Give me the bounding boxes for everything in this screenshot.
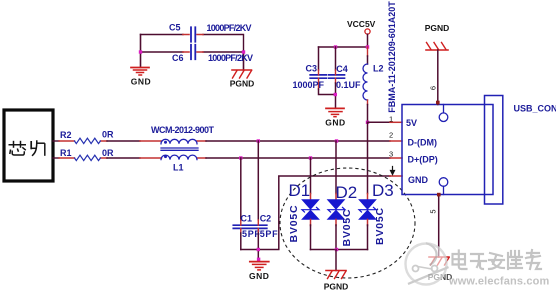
svg-text:R1: R1 bbox=[60, 148, 72, 158]
wire pin1 stub bbox=[368, 121, 391, 123]
svg-text:1000PF/2KV: 1000PF/2KV bbox=[207, 23, 252, 33]
node junction C6 left bbox=[139, 50, 142, 53]
svg-text:L2: L2 bbox=[373, 64, 384, 74]
svg-text:C1: C1 bbox=[241, 214, 253, 224]
svg-text:PGND: PGND bbox=[230, 79, 255, 89]
wire C5/C6 left vertical bbox=[140, 35, 142, 68]
capacitor C3 bbox=[293, 47, 336, 95]
diode D3 BV05C bbox=[359, 181, 394, 250]
resistor R1 bbox=[53, 148, 114, 161]
node L2 top bbox=[366, 45, 369, 48]
svg-text:L1: L1 bbox=[173, 163, 184, 173]
svg-text:1000PF: 1000PF bbox=[293, 80, 325, 90]
svg-text:WCM-2012-900T: WCM-2012-900T bbox=[151, 125, 215, 135]
svg-text:C4: C4 bbox=[336, 64, 348, 74]
inductor L2 bbox=[363, 47, 384, 122]
svg-text:BV05C: BV05C bbox=[374, 207, 386, 245]
ground GND under C1/C2 bbox=[249, 262, 269, 281]
watermark logo circle bbox=[406, 244, 448, 285]
node pin6 bbox=[436, 101, 440, 105]
wire pin5 bbox=[438, 195, 440, 258]
svg-text:GND: GND bbox=[131, 77, 151, 87]
power VCC5V bbox=[347, 19, 376, 47]
wire 5V branch to C3/C4 bbox=[319, 46, 368, 48]
resistor R2 bbox=[53, 130, 114, 144]
capacitor C4 bbox=[329, 47, 362, 108]
svg-text:C5: C5 bbox=[169, 23, 181, 33]
svg-text:5: 5 bbox=[429, 209, 438, 213]
power ground PGND bottom bbox=[324, 271, 349, 292]
wire C1/C2 ground rail to USB pin4 bbox=[241, 176, 390, 250]
svg-text:GND: GND bbox=[408, 175, 429, 185]
wire TVS bottom rail bbox=[311, 249, 368, 251]
svg-text:GND: GND bbox=[325, 118, 345, 128]
wire to PGND bbox=[335, 250, 337, 271]
wire pin6 bbox=[437, 50, 439, 105]
node PGND drop bbox=[335, 248, 338, 251]
svg-text:C3: C3 bbox=[306, 64, 318, 74]
svg-text:D+(DP): D+(DP) bbox=[408, 155, 438, 165]
ground GND under C3/C4 bbox=[325, 108, 345, 127]
ground GND top-left bbox=[131, 68, 151, 87]
connector USB_CON box bbox=[389, 96, 556, 205]
svg-text:D-(DM): D-(DM) bbox=[408, 137, 438, 147]
node pin5 bbox=[437, 193, 441, 197]
svg-text:0R: 0R bbox=[102, 148, 114, 158]
node C4 tap bbox=[334, 45, 337, 48]
TVS group dashed ellipse bbox=[280, 168, 415, 278]
diode D2 BV05C bbox=[328, 183, 358, 250]
node 5V to pin1 bbox=[366, 121, 369, 124]
node C1 tap on D+ bbox=[239, 156, 242, 159]
choke L1 WCM-2012-900T bbox=[140, 125, 215, 173]
svg-text:D1: D1 bbox=[289, 181, 311, 200]
svg-text:D3: D3 bbox=[372, 181, 394, 200]
node D2 tap on D- bbox=[335, 139, 338, 142]
node C2 tap on D- bbox=[257, 139, 260, 142]
svg-text:D2: D2 bbox=[336, 183, 358, 202]
wire D+ line choke to USB pin3 bbox=[206, 157, 390, 159]
svg-text:PGND: PGND bbox=[324, 282, 349, 292]
wire R1 to L1 bbox=[107, 157, 140, 159]
capacitor C5 bbox=[169, 23, 252, 42]
wire D2 drop bbox=[335, 141, 337, 194]
svg-text:VCC5V: VCC5V bbox=[347, 19, 376, 29]
svg-text:5V: 5V bbox=[406, 118, 417, 128]
watermark text 电子发烧友 bbox=[453, 250, 542, 269]
wire C5 row right bbox=[203, 35, 244, 53]
svg-text:2: 2 bbox=[389, 131, 393, 140]
shield pin bottom circle bbox=[443, 186, 445, 194]
node D1 tap on D+ bbox=[309, 156, 312, 159]
svg-text:0.1UF: 0.1UF bbox=[336, 80, 361, 90]
node C2 on rail bbox=[257, 248, 260, 251]
wire C5 row left bbox=[141, 34, 184, 36]
node junction C6 right bbox=[242, 50, 245, 53]
wire D3 5V drop bbox=[367, 122, 369, 193]
wire R2 to L1 bbox=[107, 140, 140, 142]
diode D1 BV05C bbox=[288, 181, 319, 250]
capacitor C2 bbox=[251, 141, 279, 262]
svg-text:C6: C6 bbox=[172, 53, 184, 63]
svg-text:GND: GND bbox=[249, 271, 269, 281]
svg-text:FBMA-11-201209-601A20T: FBMA-11-201209-601A20T bbox=[387, 1, 397, 113]
svg-text:BV05C: BV05C bbox=[288, 205, 300, 243]
shield pin top circle bbox=[443, 105, 445, 113]
wire D- line choke to USB pin2 bbox=[206, 140, 390, 142]
svg-text:R2: R2 bbox=[60, 130, 72, 140]
svg-text:USB_CON: USB_CON bbox=[514, 104, 556, 114]
wire D1 drop bbox=[310, 158, 312, 194]
wire C5/C6 right vertical to PGND bbox=[243, 52, 245, 70]
power ground PGND pin6 top bbox=[425, 23, 450, 50]
svg-text:PGND: PGND bbox=[425, 23, 450, 33]
pin4 down arrow bbox=[391, 167, 395, 175]
node C3/C4 join bbox=[334, 93, 337, 96]
svg-text:BV05C: BV05C bbox=[341, 209, 353, 247]
svg-text:www.elecfans.com: www.elecfans.com bbox=[448, 276, 549, 288]
wire C6 row right bbox=[203, 51, 244, 53]
node GND symbol top bbox=[257, 258, 260, 261]
svg-text:1000PF/2KV: 1000PF/2KV bbox=[208, 53, 253, 63]
svg-text:C2: C2 bbox=[260, 214, 272, 224]
capacitor C6 bbox=[172, 45, 253, 63]
capacitor C1 bbox=[233, 158, 260, 250]
svg-text:5PF: 5PF bbox=[260, 229, 279, 239]
svg-text:0R: 0R bbox=[102, 130, 114, 140]
svg-text:6: 6 bbox=[429, 86, 438, 90]
svg-text:3: 3 bbox=[389, 150, 393, 159]
wire C6 row left bbox=[141, 51, 184, 53]
chip box 芯片 bbox=[4, 110, 53, 181]
power ground PGND top bbox=[230, 70, 255, 89]
power ground PGND pin5 bottom bbox=[428, 257, 453, 282]
svg-text:1: 1 bbox=[389, 115, 393, 124]
